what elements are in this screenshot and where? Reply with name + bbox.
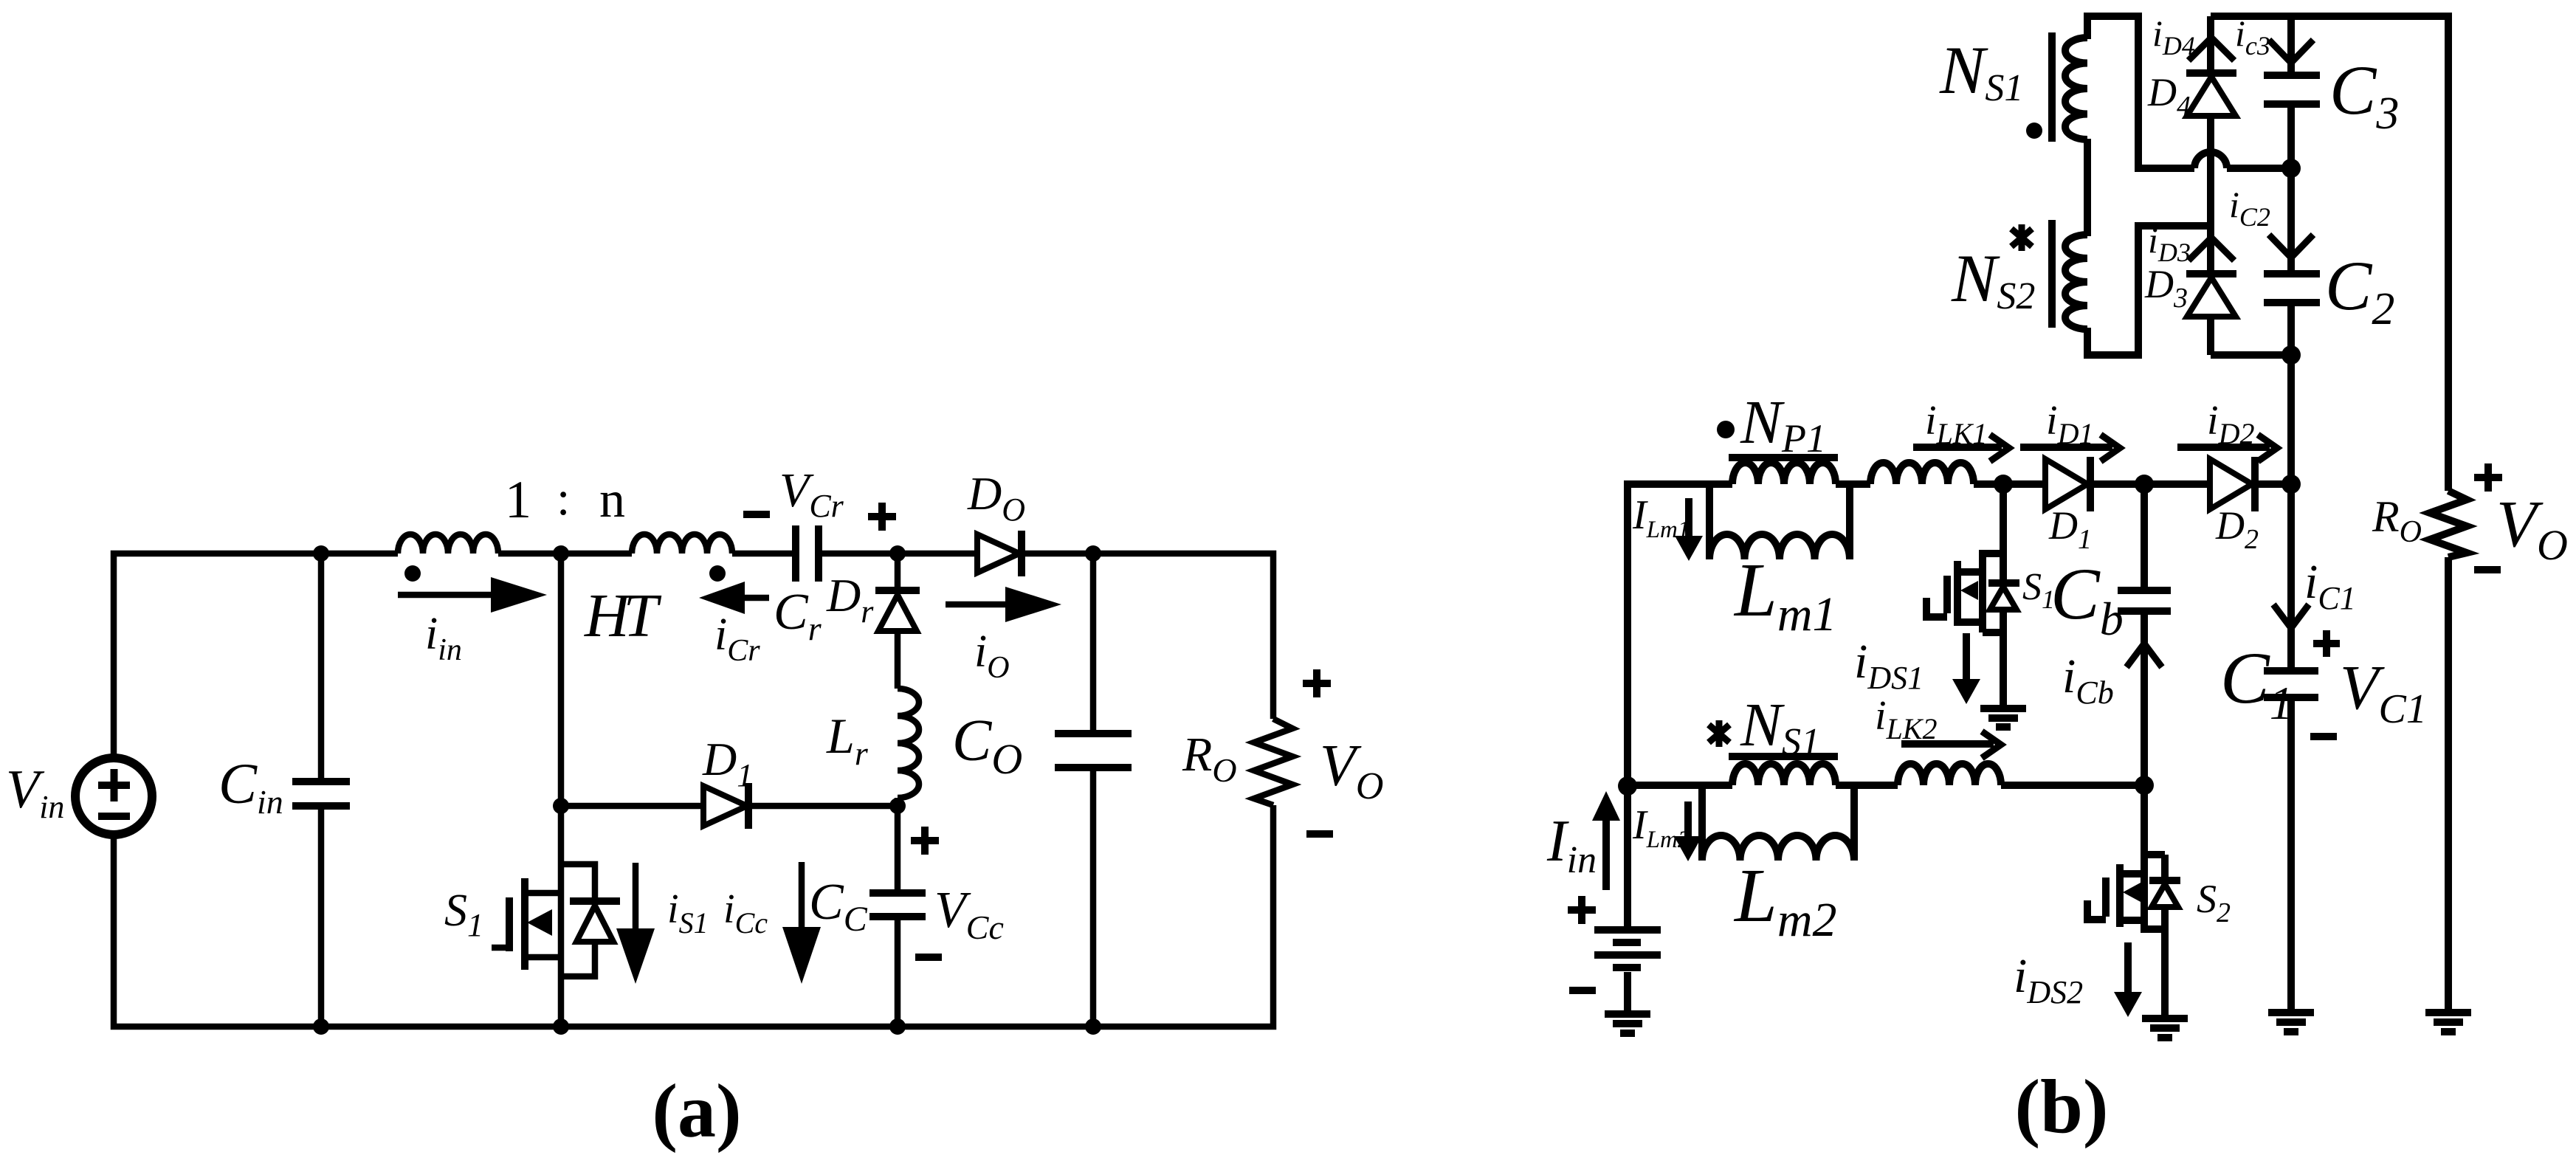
polarity dot NS1 (2026, 123, 2042, 139)
polarity dot NP1 (1717, 421, 1735, 438)
polarity asterisk NS1 row2 (1709, 720, 1729, 747)
node Co top (1085, 545, 1101, 562)
ground battery (1605, 1014, 1650, 1033)
arrow i_Cc (782, 862, 821, 984)
node S1 drain (1994, 475, 2013, 494)
capacitor Cb (2118, 484, 2171, 785)
node C3-C2 (2281, 159, 2301, 178)
arrow i_DS1 (1952, 633, 1980, 704)
MOSFET S1 (492, 864, 620, 976)
diode D3 (2186, 274, 2236, 355)
capacitor C1 (2264, 671, 2318, 1013)
diode D1 (2045, 457, 2090, 511)
arrow i_C2 (2269, 235, 2313, 258)
inductor LK2 (1898, 764, 2001, 785)
battery Vin (1594, 930, 1661, 955)
label 1 : n (505, 470, 625, 529)
minus sign Cc (915, 954, 942, 961)
wire: hop to node (2227, 165, 2291, 172)
plus sign battery (1568, 896, 1596, 924)
core bar NP1 (1729, 454, 1838, 461)
capacitor Co (1055, 554, 1132, 1027)
wire: top rail (a) (114, 554, 1273, 757)
diode D1 with wire (561, 783, 898, 829)
polarity dot secondary (709, 565, 726, 582)
svg-text::: : (557, 472, 570, 525)
node Cb top (2135, 475, 2154, 494)
wire: NS2 bottom lead (2087, 226, 2211, 355)
node Cin bottom (313, 1018, 329, 1035)
arrow i_LK1 (1913, 435, 2009, 461)
polarity dot primary (404, 565, 421, 582)
arrow i_c3 (2269, 40, 2313, 63)
voltage source Vin (75, 758, 152, 835)
wire: left input vertical (1628, 484, 1732, 928)
inductor Lm2 (1702, 785, 1854, 861)
node Cc bottom (889, 1018, 906, 1035)
capacitor Cin (292, 782, 350, 806)
wire: series link NS1-NS2 (2084, 139, 2091, 236)
minus sign Vo b (2474, 566, 2501, 573)
node D1 left (553, 798, 569, 814)
transformer core bar NS1 (2048, 32, 2056, 142)
arrow I_Lm2 (1674, 801, 1702, 861)
winding NS1 (2065, 38, 2087, 139)
wire: phase1 rail (1836, 480, 2291, 488)
node D1 right (889, 798, 906, 814)
inductor LK1 (1870, 463, 1974, 484)
arrow I_Lm1 (1675, 498, 1703, 561)
wire: top rail (b) (2211, 16, 2448, 491)
wire: left rail (a) (114, 805, 1273, 1027)
wire: C3 branch top (2287, 16, 2295, 75)
node Cb bottom (2135, 776, 2154, 795)
arrow I_in (1592, 791, 1620, 890)
arrow i_D2 (2177, 435, 2277, 461)
arrow i_O (946, 587, 1061, 622)
wire: C1 branch upper (2287, 484, 2295, 671)
wire: battery to ground (1624, 972, 1631, 1015)
diode D2 (2210, 457, 2255, 511)
minus sign battery (1569, 987, 1596, 994)
capacitor C3 (2264, 75, 2320, 274)
arrow i_Cb (2126, 644, 2162, 667)
MOSFET S1b (1926, 484, 2019, 707)
arrow i_D4 (2188, 38, 2234, 61)
ground under S2 (2142, 1018, 2188, 1038)
arrow i_D1 (2020, 435, 2120, 461)
minus sign C1 (2310, 733, 2337, 740)
node Co bottom (1085, 1018, 1101, 1035)
MOSFET S2 (2087, 785, 2180, 1017)
plus sign Vo b (2474, 463, 2502, 492)
wire: phase2 rail (1628, 782, 2144, 789)
svg-text:1: 1 (505, 470, 531, 529)
svg-text:(a): (a) (652, 1069, 741, 1154)
wire: NS1 top lead (2087, 16, 2194, 168)
ground output rail (2425, 1013, 2471, 1032)
svg-text:n: n (599, 472, 625, 528)
plus sign C1 (2313, 630, 2340, 657)
wire: Cin branch (318, 554, 325, 1027)
svg-text:HT: HT (584, 582, 662, 650)
minus sign Vo (1306, 830, 1333, 838)
diode Do (977, 531, 1022, 576)
coupled inductor primary winding (398, 534, 498, 554)
arrow i_S1 (616, 863, 655, 984)
wire: Lr to D1 node (895, 798, 901, 806)
ground under C1 (2268, 1013, 2314, 1032)
transformer core bar NS2 (2048, 220, 2056, 328)
arrow i_Cr (699, 582, 769, 614)
node C2 bottom (2281, 345, 2301, 365)
capacitor Cc (869, 806, 926, 1027)
wire: diode branch top (2207, 16, 2214, 73)
resistor Ro (1254, 719, 1292, 805)
plus sign VCr (868, 503, 896, 531)
inductor Lr (898, 689, 919, 798)
capacitor Cr (796, 525, 819, 582)
resistor Ro b (2430, 491, 2467, 557)
node C1 top (2281, 475, 2301, 494)
coupled inductor secondary winding HT (632, 534, 732, 554)
arrow i_DS2 (2114, 942, 2142, 1017)
wire: output rail right (2445, 557, 2452, 1013)
arrow i_in (398, 577, 547, 613)
node Cin top (313, 545, 329, 562)
node S1 bottom (553, 1018, 569, 1035)
core bar NS1 row2 (1729, 753, 1838, 760)
node A top of Dr (889, 545, 906, 562)
ground under S1b (1980, 708, 2026, 727)
node input tee (1618, 776, 1637, 796)
winding NP1 (1732, 463, 1836, 484)
node top center (553, 545, 569, 562)
minus sign VCr (743, 511, 770, 518)
arrow i_C1 (2273, 604, 2309, 628)
diode Dr (875, 554, 920, 689)
svg-text:(b): (b) (2014, 1064, 2108, 1149)
arrow i_LK2 (1901, 731, 2001, 758)
arrow i_D3 (2188, 238, 2234, 261)
winding NS1 row2 (1732, 764, 1836, 785)
wire: center column x760 (558, 554, 565, 1027)
diode D4 (2186, 73, 2236, 226)
inductor Lm1 (1709, 484, 1850, 559)
wire hop over diode branch (2194, 152, 2227, 168)
polarity asterisk NS2 (2011, 224, 2032, 251)
winding NS2 (2065, 235, 2087, 329)
wire: D3 anode lead to node (2211, 351, 2291, 359)
capacitor C2 (2264, 274, 2320, 484)
plus sign Cc (911, 827, 939, 855)
plus sign Vo (1303, 669, 1331, 697)
wire: D4 anode to D3 (2207, 226, 2214, 274)
